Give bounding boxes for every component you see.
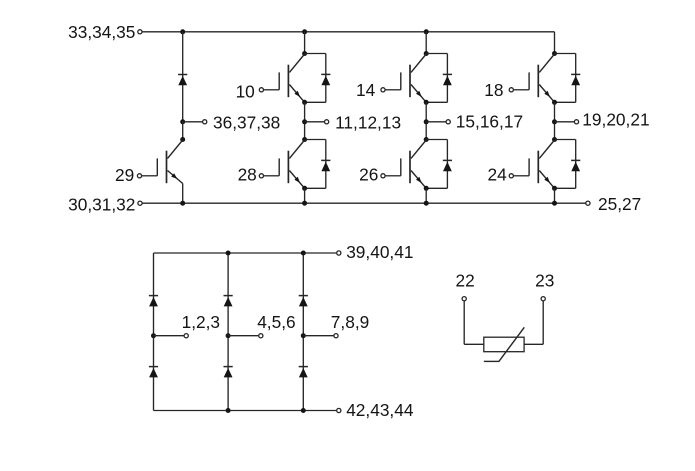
wire leg2 phase segment bbox=[304, 102, 306, 139]
junction leg3 upper emitter node bbox=[424, 100, 429, 105]
svg-text:33,34,35: 33,34,35 bbox=[68, 22, 135, 42]
wire leg2 emitter to bottom rail bbox=[304, 188, 306, 203]
transistor IGBT 28 bbox=[259, 140, 304, 188]
junction leg2 upper collector node bbox=[302, 51, 307, 56]
freewheel diode across IGBT 14 bbox=[426, 54, 452, 103]
freewheel diode across IGBT 26 bbox=[426, 140, 452, 189]
junction leg4 bottom rail bbox=[552, 201, 557, 206]
junction leg3 lower emitter node bbox=[424, 186, 429, 191]
wire stub node 36,37,38 bbox=[183, 121, 203, 123]
terminal 1,2,3 bbox=[184, 334, 188, 338]
terminal 11,12,13 bbox=[325, 120, 329, 124]
svg-text:4,5,6: 4,5,6 bbox=[257, 312, 295, 332]
transistor IGBT 24 bbox=[509, 140, 554, 188]
svg-text:18: 18 bbox=[484, 80, 503, 100]
terminal 30,31,32 bbox=[138, 201, 142, 205]
wire leg3 phase segment bbox=[425, 102, 427, 139]
wire stub node 19,20,21 bbox=[555, 121, 575, 123]
svg-text:26: 26 bbox=[359, 165, 378, 185]
wire leg1 emitter to bottom rail bbox=[182, 184, 184, 204]
junction leg3 bottom rail bbox=[424, 201, 429, 206]
transistor IGBT 29 bbox=[137, 140, 182, 184]
svg-text:11,12,13: 11,12,13 bbox=[335, 113, 401, 133]
junction node 1,2,3 bbox=[151, 333, 156, 338]
svg-text:1,2,3: 1,2,3 bbox=[182, 312, 220, 332]
terminal 39,40,41 bbox=[337, 251, 341, 255]
terminal 15,16,17 bbox=[446, 120, 450, 124]
junction rectifier leg2 top rail bbox=[226, 251, 231, 256]
terminal 23 bbox=[541, 297, 545, 301]
svg-text:30,31,32: 30,31,32 bbox=[68, 195, 135, 215]
wire rectifier leg2 bbox=[227, 253, 229, 411]
svg-text:15,16,17: 15,16,17 bbox=[456, 112, 523, 132]
wire leg1 mid segment bbox=[182, 122, 184, 140]
transistor IGBT 26 bbox=[381, 140, 426, 188]
rectifier diode lower leg3 bbox=[299, 366, 308, 368]
junction leg1 bottom rail bbox=[180, 201, 185, 206]
wire leg2 rail to collector node bbox=[304, 32, 306, 54]
junction leg2 lower emitter node bbox=[302, 186, 307, 191]
freewheel diode across IGBT 10 bbox=[305, 54, 331, 103]
terminal 25,27 bbox=[586, 201, 590, 205]
junction leg2 upper emitter node bbox=[302, 100, 307, 105]
junction node 4,5,6 bbox=[226, 333, 231, 338]
wire rectifier leg1 bbox=[153, 253, 155, 411]
rectifier diode upper leg2 bbox=[224, 295, 233, 297]
junction node 11,12,13 bbox=[302, 119, 307, 124]
svg-text:28: 28 bbox=[238, 165, 257, 185]
junction leg1 top rail bbox=[180, 29, 185, 34]
transistor IGBT 14 bbox=[381, 54, 426, 102]
transistor IGBT 18 bbox=[509, 54, 554, 102]
freewheel diode across IGBT 24 bbox=[555, 140, 581, 189]
rectifier diode lower leg1 bbox=[149, 366, 158, 368]
junction rectifier leg3 top rail bbox=[301, 251, 306, 256]
wire rectifier DC+ rail bbox=[154, 252, 337, 254]
terminal 22 bbox=[462, 297, 466, 301]
junction leg3 lower collector node bbox=[424, 137, 429, 142]
wire leg4 emitter to bottom rail bbox=[554, 188, 556, 203]
junction leg2 top rail bbox=[302, 29, 307, 34]
wire leg4 phase segment bbox=[554, 102, 556, 139]
wire stub node 11,12,13 bbox=[305, 121, 325, 123]
terminal 42,43,44 bbox=[337, 408, 341, 412]
svg-text:39,40,41: 39,40,41 bbox=[346, 242, 413, 262]
freewheel diode across IGBT 18 bbox=[555, 54, 581, 103]
wire stub node 7,8,9 bbox=[303, 335, 333, 337]
wire stub node 4,5,6 bbox=[228, 335, 258, 337]
junction rectifier leg3 bottom rail bbox=[301, 408, 306, 413]
svg-text:42,43,44: 42,43,44 bbox=[346, 400, 414, 420]
terminal 33,34,35 bbox=[138, 30, 142, 34]
terminal 4,5,6 bbox=[259, 334, 263, 338]
junction leg4 lower emitter node bbox=[552, 186, 557, 191]
junction node 15,16,17 bbox=[424, 119, 429, 124]
wire leg1 upper segment bbox=[182, 32, 184, 122]
wire DC+ top rail bbox=[142, 31, 554, 33]
freewheel diode across IGBT 28 bbox=[305, 140, 331, 189]
terminal 19,20,21 bbox=[574, 120, 578, 124]
wire leg4 rail to collector node bbox=[554, 32, 556, 54]
terminal 36,37,38 bbox=[203, 120, 207, 124]
wire thermistor right lead bbox=[524, 301, 543, 344]
diode leg1 (chopper freewheel diode) bbox=[178, 74, 187, 76]
svg-text:23: 23 bbox=[535, 271, 554, 291]
wire rectifier DC- rail bbox=[154, 410, 337, 412]
wire stub node 1,2,3 bbox=[154, 335, 184, 337]
svg-text:10: 10 bbox=[236, 81, 255, 101]
junction leg2 bottom rail bbox=[302, 201, 307, 206]
terminal 7,8,9 bbox=[334, 334, 338, 338]
svg-text:29: 29 bbox=[115, 165, 134, 185]
wire thermistor left lead bbox=[464, 301, 484, 344]
svg-text:19,20,21: 19,20,21 bbox=[582, 110, 649, 130]
junction leg4 lower collector node bbox=[552, 137, 557, 142]
junction leg1 collector of IGBT 29 bbox=[180, 137, 185, 142]
transistor IGBT 10 bbox=[259, 54, 304, 102]
junction leg3 top rail bbox=[424, 29, 429, 34]
svg-text:36,37,38: 36,37,38 bbox=[213, 113, 280, 133]
svg-text:7,8,9: 7,8,9 bbox=[331, 312, 369, 332]
junction node 19,20,21 bbox=[552, 119, 557, 124]
wire DC- bottom rail bbox=[142, 202, 585, 204]
svg-text:22: 22 bbox=[455, 271, 474, 291]
rectifier diode upper leg1 bbox=[149, 295, 158, 297]
junction rectifier leg2 bottom rail bbox=[226, 408, 231, 413]
rectifier diode upper leg3 bbox=[299, 295, 308, 297]
junction leg3 upper collector node bbox=[424, 51, 429, 56]
wire stub node 15,16,17 bbox=[426, 121, 446, 123]
junction leg2 lower collector node bbox=[302, 137, 307, 142]
svg-text:24: 24 bbox=[487, 165, 507, 185]
rectifier diode lower leg2 bbox=[224, 366, 233, 368]
wire leg3 rail to collector node bbox=[425, 32, 427, 54]
junction node 36,37,38 bbox=[180, 119, 185, 124]
svg-text:25,27: 25,27 bbox=[598, 194, 641, 214]
wire leg3 emitter to bottom rail bbox=[425, 188, 427, 203]
thermistor NTC (terminals 22-23) bbox=[484, 327, 525, 361]
junction leg4 upper collector node bbox=[552, 51, 557, 56]
junction node 7,8,9 bbox=[301, 333, 306, 338]
junction leg4 upper emitter node bbox=[552, 100, 557, 105]
svg-text:14: 14 bbox=[356, 80, 376, 100]
wire rectifier leg3 bbox=[302, 253, 304, 411]
